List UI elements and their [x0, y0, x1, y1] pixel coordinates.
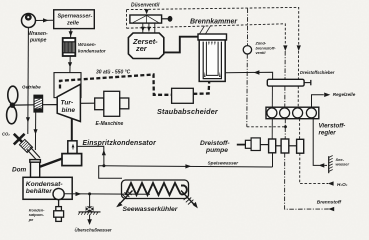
valve CO2 blow-out — [14, 134, 25, 145]
wire steam line Staubabscheider to Brennkammer (heavy dashed) — [193, 81, 209, 94]
wire valve to Zersetzer — [143, 23, 155, 33]
wire cooler outlet to feed junction — [99, 166, 122, 179]
svg-text:Wrasen-: Wrasen- — [78, 42, 97, 47]
valve Zündbrennstoffventil — [243, 8, 251, 126]
svg-text:Düsenventil: Düsenventil — [131, 3, 160, 9]
wire H2O2 suction (dashed) — [300, 153, 328, 183]
box Sperrwasserzelle — [54, 10, 95, 29]
svg-text:kondensator: kondensator — [78, 49, 106, 54]
svg-text:Regelzelle: Regelzelle — [333, 92, 356, 97]
turbine casing — [54, 73, 81, 98]
wire Sperrwasserzelle down to condenser — [69, 29, 73, 38]
svg-text:zer: zer — [135, 44, 148, 53]
separator Staubabscheider — [172, 88, 194, 103]
wire Seewasser sensing line — [313, 119, 327, 168]
sea outlet marker right — [181, 191, 198, 209]
wire injection water line into condenser neck — [77, 146, 106, 165]
svg-text:ventil: ventil — [256, 51, 267, 55]
wire condenser down to turbine casing — [68, 56, 72, 73]
svg-text:regler: regler — [319, 130, 337, 137]
svg-text:Dom: Dom — [12, 166, 27, 173]
svg-text:bine: bine — [62, 107, 76, 114]
sea inlet marker left — [116, 190, 132, 207]
pump element 2 (Brennstoff) — [281, 139, 289, 153]
svg-text:CO₂: CO₂ — [2, 132, 10, 137]
condenser Wrasenkondensator — [63, 38, 76, 56]
motor E-Maschine — [95, 91, 129, 116]
svg-text:Kondensat-: Kondensat- — [26, 181, 64, 188]
wire condensate discharge — [64, 192, 150, 196]
wire Zündbrennstoff tap to fuel column — [247, 126, 286, 128]
wire Wrasenpumpe suction down-left column — [26, 28, 30, 135]
svg-text:Überschußwasser: Überschußwasser — [75, 228, 112, 233]
pump element 1 (Speisewasser) — [269, 139, 276, 153]
wire turbine exhaust down — [71, 118, 73, 141]
wire heavy drain condenser to Dom — [40, 159, 63, 167]
wire dashed control line lower (to Dreistoffschieber) — [127, 24, 286, 45]
wire Speisewasser line — [104, 164, 273, 168]
svg-text:Zünd-: Zünd- — [255, 42, 267, 46]
svg-text:brennstoff-: brennstoff- — [256, 46, 277, 50]
condenser Einspritzkondensator — [62, 141, 82, 166]
svg-text:Getriebe: Getriebe — [22, 85, 41, 90]
propeller — [7, 86, 18, 124]
wire pump to Sperrwasserzelle — [36, 18, 54, 22]
wire element shafts — [276, 145, 297, 147]
svg-text:Dreistoffschieber: Dreistoffschieber — [300, 70, 335, 75]
node feed junction — [102, 164, 105, 167]
turbine — [57, 84, 80, 121]
wire control columns above Dreistoffschieber — [285, 51, 299, 79]
wire turbine to E-machine shaft — [80, 102, 94, 104]
svg-text:Speisewasser: Speisewasser — [208, 161, 239, 166]
svg-text:Vierstoff-: Vierstoff- — [319, 123, 346, 130]
wire columns Dreistoffschieber to Vierstoffregler — [272, 86, 298, 107]
valve Dreistoffschieber — [267, 79, 311, 86]
svg-text:E-Maschine: E-Maschine — [96, 121, 124, 127]
svg-text:Brennstoff: Brennstoff — [317, 200, 342, 206]
sea marker Seewasser — [329, 156, 333, 174]
tank Kondensatbehälter — [23, 177, 72, 199]
pointer lines Brennkammer label — [200, 26, 211, 34]
svg-text:wasser: wasser — [336, 162, 350, 167]
compensator hatched piece — [19, 139, 32, 152]
wire columns Vierstoffregler to pump elements — [272, 119, 299, 140]
svg-text:Sperrwasser-: Sperrwasser- — [58, 14, 93, 20]
arrow control line down into valve — [145, 9, 149, 14]
valve Düsenventil body — [130, 15, 173, 23]
svg-text:H₂O₂: H₂O₂ — [337, 182, 348, 187]
svg-text:pumpe: pumpe — [205, 147, 228, 154]
svg-text:behälter: behälter — [26, 188, 52, 195]
svg-text:Tur-: Tur- — [61, 100, 74, 107]
regulator Vierstoffregler — [266, 107, 319, 119]
arrow control arrows down — [283, 45, 287, 51]
wire Brennstoff suction (dash-dot) — [285, 153, 329, 209]
pump element 3 (H2O2) — [297, 139, 304, 153]
svg-text:pe: pe — [28, 217, 34, 222]
svg-text:Staubabscheider: Staubabscheider — [157, 107, 219, 116]
pump Wrasenpumpe — [22, 14, 36, 28]
wire main steam line turbine to Staubabscheider (heavy dashed) — [60, 75, 172, 95]
wire double pipe compensator to Dom — [27, 147, 40, 161]
wire dashed control line top (to Dreistoffschieber) — [127, 7, 299, 45]
motor Dreistoffpumpe drive — [237, 138, 269, 151]
svg-text:30 atü - 550 °C: 30 atü - 550 °C — [96, 70, 131, 76]
svg-text:zelle: zelle — [66, 21, 79, 27]
cooler Seewasserkühler — [122, 180, 189, 199]
gearbox Getriebe — [34, 95, 43, 112]
chamber Brennkammer — [198, 34, 227, 81]
svg-text:pumpe: pumpe — [29, 38, 47, 44]
pump Kondensatpumpe — [54, 200, 64, 222]
svg-text:Wrasen-: Wrasen- — [28, 31, 48, 37]
wire Regelzelle line — [312, 93, 331, 108]
wire propeller shaft — [14, 104, 34, 106]
valve overboard discharge — [78, 194, 100, 225]
dome Dom — [30, 160, 41, 178]
wire Getriebe drain down to Dom — [34, 113, 38, 151]
wire gearbox to turbine shaft — [43, 104, 58, 106]
wire feed line into Brennkammer — [225, 70, 272, 79]
pump condensate circle — [53, 188, 64, 199]
wire Zersetzer to Brennkammer — [164, 37, 198, 53]
svg-text:Seewasserkühler: Seewasserkühler — [123, 206, 178, 213]
reactor Zersetzer — [128, 33, 163, 59]
svg-text:Brennkammer: Brennkammer — [190, 19, 238, 26]
wire Speisewasser suction up into element 1 — [272, 153, 274, 167]
